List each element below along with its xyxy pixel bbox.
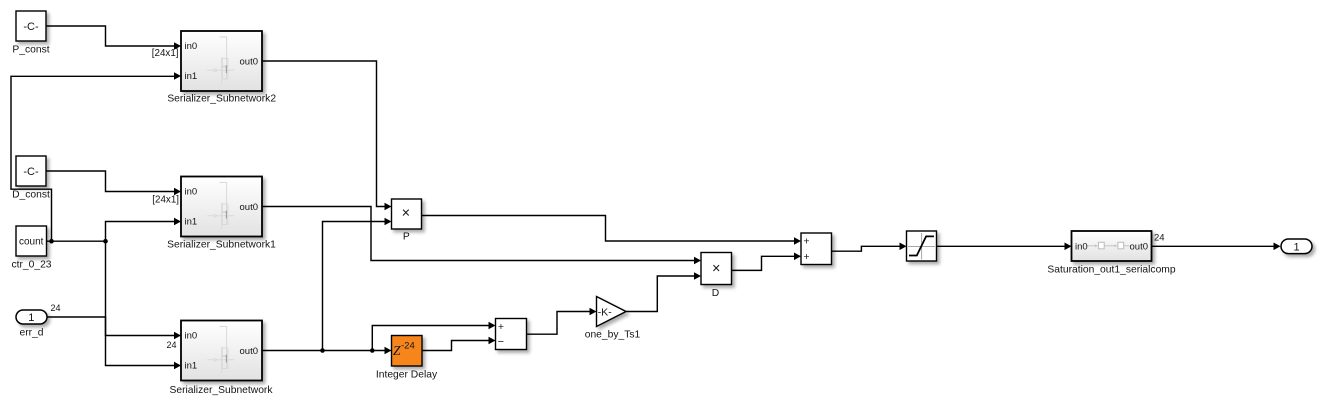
svg-text:×: × <box>402 205 410 221</box>
svg-text:in0: in0 <box>185 331 198 342</box>
svg-text:24: 24 <box>51 303 61 313</box>
wire Saturation_out1_serialcomp out to outport <box>1152 245 1274 247</box>
arrowhead into Integer Delay <box>385 347 392 355</box>
svg-text:one_by_Ts1: one_by_Ts1 <box>585 330 641 341</box>
wire Serializer_Subnetwork out0 to Integer Delay <box>262 350 385 352</box>
svg-text:D: D <box>712 288 719 299</box>
svg-text:-C-: -C- <box>23 21 39 33</box>
wire Integer Delay out to Sum1 minus input <box>422 341 489 351</box>
svg-text:Serializer_Subnetwork: Serializer_Subnetwork <box>169 385 273 396</box>
gain one_by_Ts1 <box>597 297 627 327</box>
wire count branch to Serializer_Subnetwork in1 <box>106 241 175 365</box>
svg-text:Serializer_Subnetwork1: Serializer_Subnetwork1 <box>167 240 276 251</box>
arrowhead into Sum2 input 2 <box>794 253 801 261</box>
svg-text:×: × <box>712 261 720 277</box>
junction dot A at count output <box>49 239 54 244</box>
svg-text:Saturation_out1_serialcomp: Saturation_out1_serialcomp <box>1047 265 1175 276</box>
junction dot C err element to P <box>320 348 325 353</box>
product D <box>701 253 732 285</box>
sum Sum2 plus plus <box>801 233 832 265</box>
arrowhead into Serializer_Subnetwork in1 <box>174 362 181 370</box>
inport err_d <box>16 310 47 324</box>
arrowhead into Sum1 minus <box>489 337 496 345</box>
svg-text:−: − <box>498 336 504 348</box>
svg-text:1: 1 <box>1293 242 1299 254</box>
wire Serializer_Subnetwork2 out0 to P input 1 <box>262 61 385 207</box>
arrowhead into D input 1 <box>694 257 701 265</box>
subsystem Saturation_out1_serialcomp <box>1072 231 1152 261</box>
arrowhead into Serializer_Subnetwork2 in0 <box>174 42 181 50</box>
arrowhead into P input 1 <box>385 203 392 211</box>
svg-text:+: + <box>803 251 809 263</box>
svg-text:[24x1]: [24x1] <box>152 195 179 206</box>
arrowhead into Saturation <box>900 243 907 251</box>
junction dot B count split <box>103 239 108 244</box>
outport 1 <box>1281 239 1312 254</box>
arrowhead into Serializer_Subnetwork1 in1 <box>174 218 181 226</box>
svg-text:in0: in0 <box>185 41 198 52</box>
svg-text:in1: in1 <box>185 361 198 372</box>
wire D out to Sum2 input 2 <box>732 256 795 270</box>
svg-text:ctr_0_23: ctr_0_23 <box>11 260 51 271</box>
arrowhead into Serializer_Subnetwork1 in0 <box>174 188 181 196</box>
svg-text:Integer Delay: Integer Delay <box>376 370 438 381</box>
arrowhead into P input 2 <box>385 218 392 226</box>
product P <box>392 199 422 229</box>
counter block ctr_0_23 <box>16 226 47 256</box>
svg-text:in0: in0 <box>1075 242 1088 253</box>
svg-text:D_const: D_const <box>12 190 50 201</box>
svg-text:24: 24 <box>1154 233 1165 244</box>
wire Sum2 out to Saturation <box>832 246 900 251</box>
svg-text:[24x1]: [24x1] <box>152 48 179 59</box>
arrowhead into D input 2 <box>694 272 701 280</box>
svg-text:-C-: -C- <box>23 166 39 178</box>
subsystem Serializer_Subnetwork <box>181 321 262 381</box>
wire Saturation out to Saturation_out1_serialcomp <box>937 245 1065 247</box>
svg-text:out0: out0 <box>240 202 259 213</box>
wire Sum1 out to one_by_Ts1 gain <box>527 312 590 335</box>
wire D_const to Serializer_Subnetwork1 in0 <box>46 171 174 192</box>
wire count output <box>46 240 105 242</box>
subsystem Serializer_Subnetwork2 <box>181 31 262 91</box>
junction dot D err element to Sum1 <box>370 348 375 353</box>
arrowhead into Sum1 plus <box>489 322 496 330</box>
wire branch err element to Sum1 plus input <box>372 326 488 351</box>
arrowhead into one_by_Ts1 <box>590 308 597 316</box>
arrowhead into Sum2 input 1 <box>794 237 801 245</box>
arrowhead into Serializer_Subnetwork in0 <box>174 332 181 340</box>
wire Serializer_Subnetwork1 out0 to D input 1 <box>262 207 694 261</box>
delay block Integer Delay <box>392 336 423 367</box>
svg-text:-K-: -K- <box>598 306 613 318</box>
arrowhead into outport 1 <box>1274 243 1281 251</box>
wire count branch to Serializer_Subnetwork1 in1 <box>106 222 175 242</box>
wire P_const to Serializer_Subnetwork2 in0 <box>46 26 174 46</box>
svg-text:err_d: err_d <box>19 328 43 339</box>
svg-text:out0: out0 <box>1130 242 1149 253</box>
svg-text:in1: in1 <box>185 217 198 228</box>
subsystem Serializer_Subnetwork1 <box>181 177 262 237</box>
svg-text:1: 1 <box>28 312 34 324</box>
svg-text:+: + <box>498 321 504 333</box>
constant D_const <box>16 156 46 186</box>
arrowhead into Serializer_Subnetwork2 in1 <box>174 72 181 80</box>
wire err_d to Serializer_Subnetwork in0 <box>47 317 174 336</box>
svg-text:24: 24 <box>166 340 176 350</box>
svg-text:P: P <box>403 232 410 243</box>
svg-text:+: + <box>803 236 809 248</box>
svg-text:out0: out0 <box>240 346 259 357</box>
arrowhead into Saturation_out1_serialcomp <box>1065 243 1072 251</box>
wire count branch to Serializer_Subnetwork2 in1 <box>11 76 174 241</box>
svg-text:P_const: P_const <box>12 45 49 56</box>
svg-text:out0: out0 <box>240 57 259 68</box>
wire branch err element to P input 2 <box>323 222 385 351</box>
wire one_by_Ts1 out to D input 2 <box>626 276 694 312</box>
svg-text:in1: in1 <box>185 71 198 82</box>
saturation block <box>907 231 937 261</box>
svg-text:Serializer_Subnetwork2: Serializer_Subnetwork2 <box>167 94 276 105</box>
svg-text:count: count <box>19 237 44 248</box>
svg-text:in0: in0 <box>185 187 198 198</box>
svg-text:-24: -24 <box>401 341 415 352</box>
svg-text:Z: Z <box>393 343 401 358</box>
wire P out to Sum2 input 1 <box>422 216 795 242</box>
sum Sum1 plus minus <box>496 319 527 350</box>
constant P_const <box>16 11 46 41</box>
